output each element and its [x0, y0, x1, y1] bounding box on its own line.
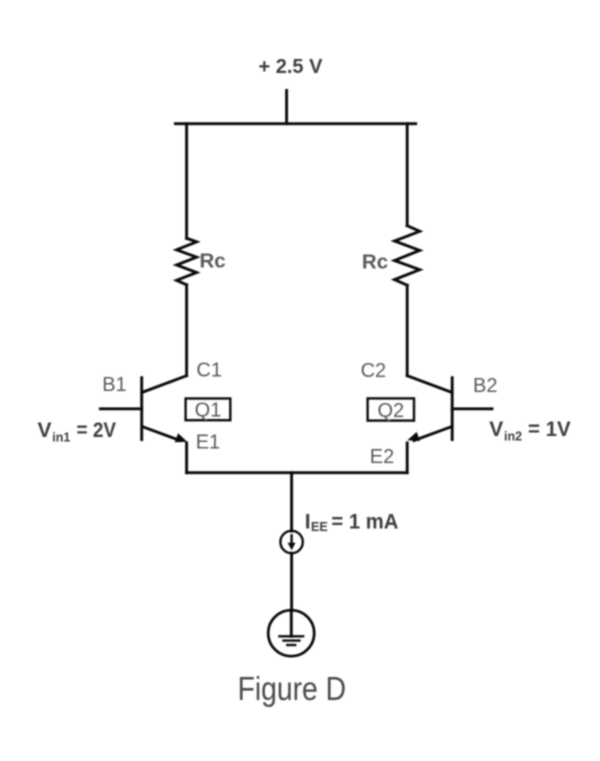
- tail wire to current source: [290, 473, 293, 531]
- svg-text:C2: C2: [361, 360, 387, 382]
- Q1 base wire: [100, 407, 141, 410]
- Q1 emitter vertical wire: [185, 443, 188, 473]
- Q1 emitter diagonal: [143, 427, 181, 441]
- ground circle: [268, 610, 314, 656]
- current source IEE circle: [280, 531, 302, 553]
- wire resistor to Q2 collector: [406, 285, 409, 376]
- svg-text:C1: C1: [196, 360, 222, 382]
- svg-text:Vin2= 1V: Vin2= 1V: [489, 418, 570, 444]
- Q2 emitter arrowhead: [406, 432, 420, 445]
- Q1 collector diagonal: [143, 376, 187, 393]
- transistor Q2 base bar: [451, 378, 454, 440]
- transistor Q1 base bar: [140, 378, 143, 440]
- svg-text:B2: B2: [473, 375, 497, 397]
- svg-text:Figure D: Figure D: [238, 670, 347, 707]
- Q1 label box: [186, 399, 231, 421]
- Q2 collector diagonal: [407, 376, 451, 393]
- svg-text:E1: E1: [196, 431, 220, 453]
- wire current source to ground: [290, 553, 293, 610]
- top rail wire: [175, 122, 415, 125]
- wire resistor to Q1 collector: [185, 285, 188, 376]
- svg-text:B1: B1: [102, 374, 126, 396]
- current source arrowhead: [288, 543, 296, 551]
- emitter rail wire: [187, 471, 408, 474]
- Q2 base wire: [452, 407, 492, 410]
- ground bar 1: [279, 635, 303, 637]
- Q2 emitter diagonal: [414, 427, 451, 441]
- svg-text:Q1: Q1: [195, 400, 222, 422]
- right collector branch wire: [406, 124, 409, 226]
- svg-text:Rc: Rc: [362, 250, 388, 273]
- current source arrow shaft: [290, 535, 292, 545]
- power stub wire: [285, 90, 288, 123]
- svg-text:+ 2.5 V: + 2.5 V: [259, 56, 324, 78]
- svg-text:Rc: Rc: [200, 250, 226, 273]
- Q2 label box: [368, 398, 414, 420]
- ground bar 2: [284, 639, 300, 641]
- Q1 emitter arrowhead: [175, 433, 189, 446]
- Q2 emitter vertical wire: [406, 443, 409, 473]
- ground stem: [290, 610, 293, 636]
- svg-text:E2: E2: [370, 446, 394, 468]
- ground bar 3: [287, 644, 295, 646]
- svg-text:IEE= 1 mA: IEE= 1 mA: [305, 510, 399, 534]
- resistor Rc right: [395, 226, 420, 286]
- left collector branch wire: [185, 124, 188, 239]
- resistor Rc left: [177, 238, 197, 284]
- svg-text:Q2: Q2: [377, 400, 404, 422]
- svg-text:Vin1= 2V: Vin1= 2V: [38, 419, 117, 445]
